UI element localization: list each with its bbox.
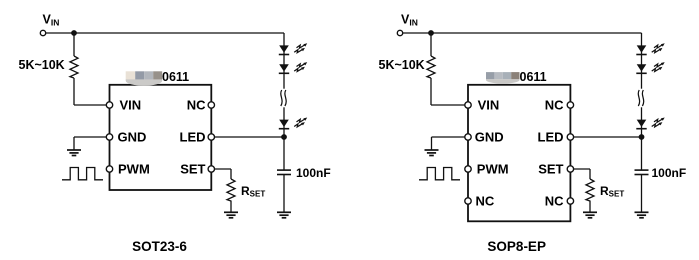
svg-text:VIN: VIN [478, 98, 500, 113]
svg-text:RSET: RSET [600, 184, 624, 199]
svg-text:LED: LED [538, 130, 564, 145]
svg-text:VIN: VIN [401, 13, 418, 28]
svg-text:0611: 0611 [162, 70, 189, 84]
svg-text:SOP8-EP: SOP8-EP [487, 239, 546, 254]
svg-text:SOT23-6: SOT23-6 [132, 239, 187, 254]
svg-text:NC: NC [476, 194, 495, 209]
svg-text:100nF: 100nF [296, 166, 331, 180]
svg-text:NC: NC [545, 194, 564, 209]
svg-text:GND: GND [118, 130, 147, 145]
svg-text:GND: GND [475, 130, 504, 145]
svg-text:5K~10K: 5K~10K [379, 58, 425, 72]
svg-text:PWM: PWM [477, 162, 509, 177]
svg-text:SET: SET [180, 162, 205, 177]
svg-text:PWM: PWM [118, 162, 150, 177]
svg-text:5K~10K: 5K~10K [19, 58, 65, 72]
svg-text:100nF: 100nF [652, 166, 687, 180]
svg-text:VIN: VIN [120, 98, 142, 113]
svg-text:RSET: RSET [241, 184, 265, 199]
svg-text:SET: SET [538, 162, 563, 177]
svg-text:LED: LED [180, 130, 206, 145]
svg-text:NC: NC [545, 98, 564, 113]
svg-text:VIN: VIN [43, 13, 60, 28]
svg-text:NC: NC [187, 98, 206, 113]
svg-text:0611: 0611 [520, 70, 547, 84]
